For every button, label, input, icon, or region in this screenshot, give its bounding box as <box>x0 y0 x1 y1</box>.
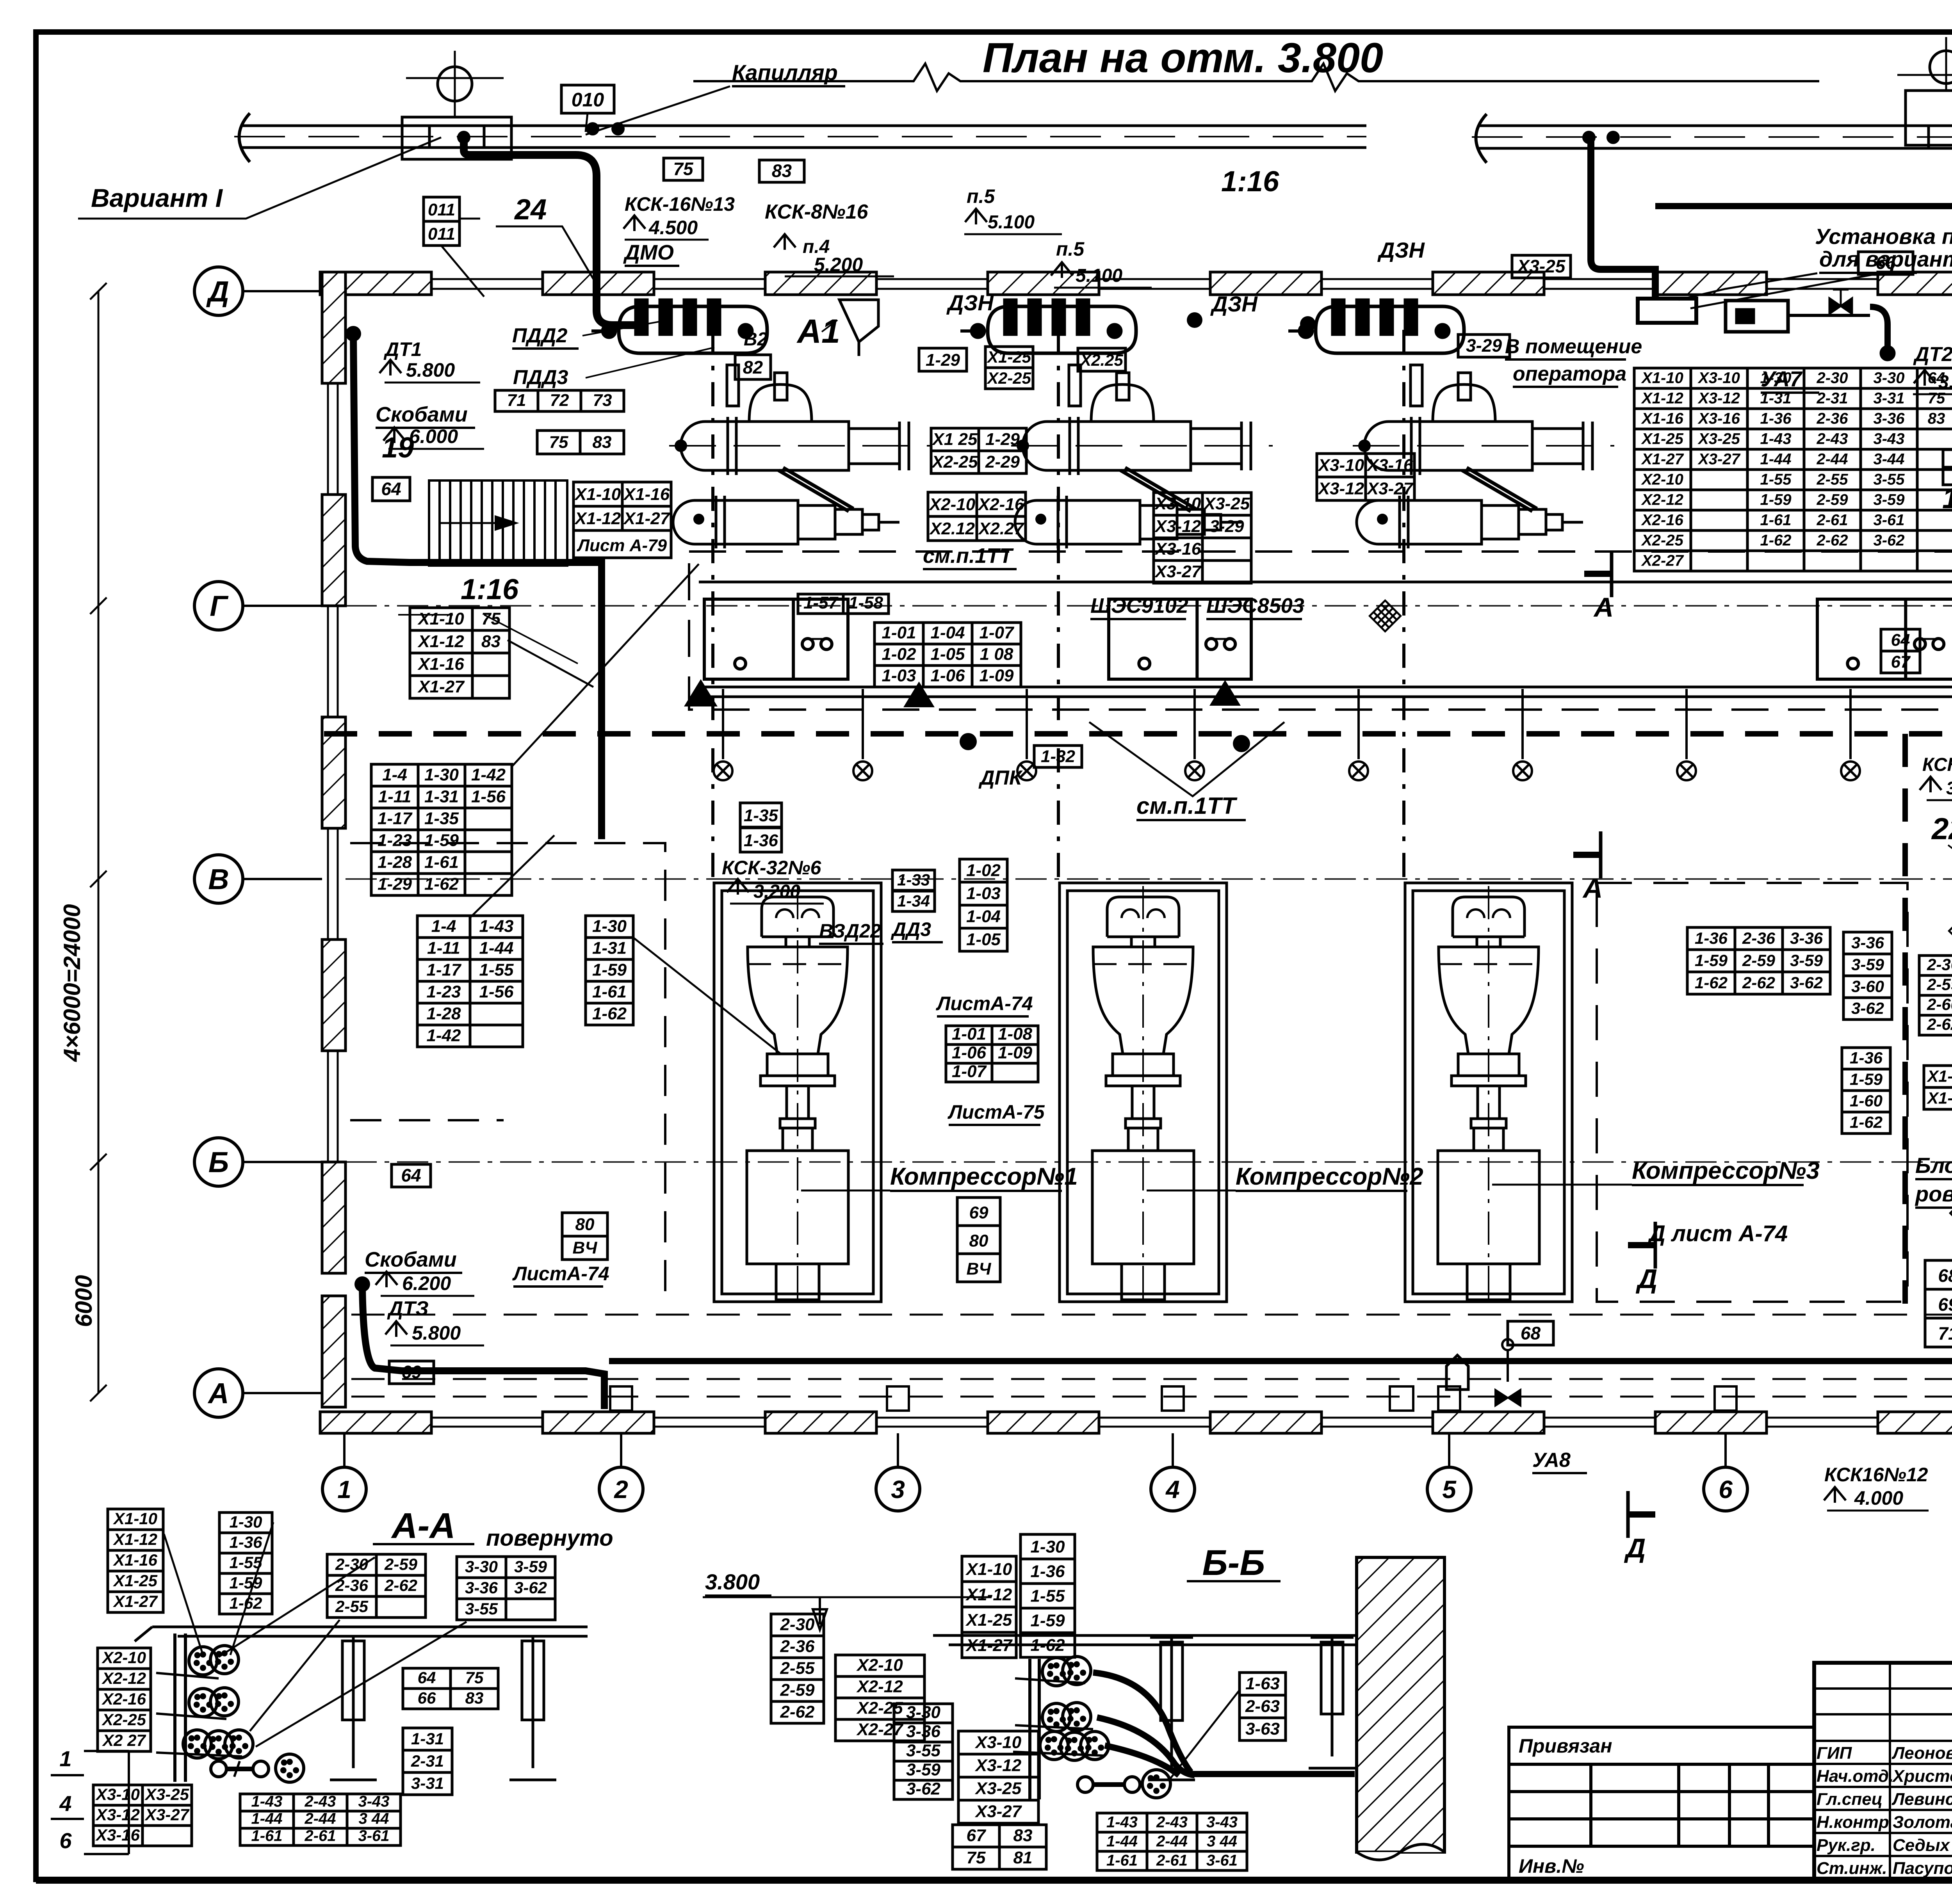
label КСК-16№13 <box>625 193 735 215</box>
dashed line below bays <box>351 1314 1952 1316</box>
svg-text:3-62: 3-62 <box>1790 973 1823 992</box>
svg-text:ДТЗ: ДТЗ <box>387 1297 429 1320</box>
flag 4.500 left <box>623 215 645 231</box>
svg-text:ШЭС9102: ШЭС9102 <box>1090 594 1188 617</box>
svg-text:повернуто: повернуто <box>486 1525 613 1551</box>
svg-text:Компрессор№2: Компрессор№2 <box>1236 1163 1423 1190</box>
svg-text:2-55: 2-55 <box>1816 471 1848 488</box>
svg-text:64: 64 <box>418 1668 436 1687</box>
label 22 mid <box>1931 811 1952 846</box>
svg-text:1-03: 1-03 <box>966 884 1001 903</box>
svg-text:3-59: 3-59 <box>1873 491 1905 508</box>
box 1-33 <box>892 870 935 890</box>
Б-Б pulley 5 <box>1040 1731 1068 1760</box>
Variant II pipe support bracket <box>1906 91 1952 148</box>
А-А section roof lines <box>135 1627 588 1641</box>
leader 22 mid <box>1948 845 1952 894</box>
table АА 1-30 col <box>219 1513 272 1614</box>
svg-text:3 44: 3 44 <box>1207 1833 1237 1850</box>
svg-text:4.500: 4.500 <box>648 217 698 238</box>
svg-text:Х3-12: Х3-12 <box>1154 517 1201 536</box>
svg-text:см.п.1ТТ: см.п.1ТТ <box>1136 793 1238 819</box>
table ББ 1-63 col <box>1240 1673 1286 1740</box>
row axis Г dash-dot line <box>346 605 1952 607</box>
svg-text:1:16: 1:16 <box>461 573 519 605</box>
svg-text:83: 83 <box>481 632 500 651</box>
svg-text:83: 83 <box>465 1689 484 1707</box>
label Компрессор №3 <box>1632 1157 1820 1185</box>
svg-text:рования ШИЕ: рования ШИЕ <box>1915 1182 1952 1206</box>
label 19 right <box>1942 482 1952 514</box>
svg-text:Х2 27: Х2 27 <box>102 1731 146 1749</box>
svg-text:ВЗД22: ВЗД22 <box>819 920 881 942</box>
svg-text:Х1-12: Х1-12 <box>965 1585 1012 1604</box>
svg-text:ДТ2: ДТ2 <box>1913 343 1952 366</box>
svg-text:Установка приборов: Установка приборов <box>1815 224 1952 249</box>
wire: cable bottom-left corner <box>362 1284 604 1409</box>
svg-text:2-59: 2-59 <box>1816 491 1848 508</box>
Б-Б roof lines <box>933 1635 1390 1645</box>
svg-text:3-44: 3-44 <box>1873 450 1904 468</box>
bottom wall window lines <box>431 1418 1952 1427</box>
svg-text:Седых: Седых <box>1893 1836 1950 1855</box>
svg-text:5.200: 5.200 <box>814 254 863 276</box>
svg-text:Х3-10: Х3-10 <box>1697 369 1740 386</box>
top wall pier 1 <box>320 272 431 295</box>
УА8 valve black <box>1495 1390 1521 1406</box>
crosshatch near Блок <box>1950 1197 1952 1229</box>
label Установка приборов <box>1815 224 1952 249</box>
section flag Д bottom <box>1624 1491 1655 1563</box>
svg-text:6: 6 <box>1719 1475 1733 1504</box>
wire: long bottom cable to ДТЧ <box>609 1358 1952 1364</box>
svg-text:Х3-12: Х3-12 <box>1317 479 1364 498</box>
svg-text:75: 75 <box>549 432 568 452</box>
svg-text:1-43: 1-43 <box>251 1793 282 1810</box>
svg-text:ГИП: ГИП <box>1817 1744 1852 1763</box>
svg-text:3-59: 3-59 <box>1851 955 1884 973</box>
flag 5.200 <box>774 234 796 250</box>
ul 3800 <box>1927 799 1952 801</box>
leader см.п.1ТТ V <box>1089 722 1284 796</box>
svg-text:1-61: 1-61 <box>1106 1852 1138 1869</box>
valve bowtie near УА7 <box>1829 290 1852 314</box>
svg-text:Х1-27: Х1-27 <box>623 509 671 528</box>
table 1-57 1-58 <box>798 594 889 614</box>
Б-Б pulley 8 <box>1142 1770 1170 1798</box>
elev 4.500 <box>648 217 698 238</box>
table АА 1-43 2-43 3-43 <box>240 1794 401 1845</box>
row axis А circle <box>194 1369 322 1417</box>
table ББ 2-30 col <box>771 1614 824 1723</box>
svg-text:Х1-12: Х1-12 <box>417 632 464 651</box>
svg-text:1-32: 1-32 <box>1041 747 1076 766</box>
svg-text:2-43: 2-43 <box>1156 1813 1188 1831</box>
table Х3-10 Х3-25 col <box>1154 493 1251 583</box>
instrument cluster 2 (valves/transmitters at top wall) <box>1288 299 1464 353</box>
svg-text:1-43: 1-43 <box>479 916 513 936</box>
title Б-Б <box>1187 1543 1281 1583</box>
leader 66 <box>1690 274 1874 308</box>
elev 3 800 <box>1946 778 1952 798</box>
electrical panel 1 in duct band <box>704 599 848 679</box>
svg-text:1-55: 1-55 <box>1030 1587 1065 1606</box>
row axis Б dash-dot line <box>346 1161 1952 1163</box>
svg-text:72: 72 <box>550 391 569 410</box>
Б-Б pulley 4 <box>1063 1703 1091 1731</box>
svg-text:Х3-25: Х3-25 <box>1203 494 1250 513</box>
svg-text:1-36: 1-36 <box>1760 410 1792 427</box>
label повернуто <box>486 1525 613 1551</box>
svg-text:1-63: 1-63 <box>1245 1674 1280 1693</box>
svg-text:Гл.спец: Гл.спец <box>1817 1790 1883 1809</box>
left wall window lines <box>328 383 338 1162</box>
svg-text:1-03: 1-03 <box>882 666 916 685</box>
svg-text:1-56: 1-56 <box>479 982 514 1001</box>
svg-text:ШЭС8503: ШЭС8503 <box>1206 594 1304 617</box>
elev 5.800 дт1 <box>406 359 455 381</box>
table ББ Х1-10 col <box>962 1556 1016 1658</box>
table 1-36 2-36 3-36 <box>1687 927 1830 994</box>
label ДМО <box>623 241 679 266</box>
svg-text:1-35: 1-35 <box>744 806 778 825</box>
left wall pier 5 <box>322 1162 346 1273</box>
label оператора <box>1513 363 1626 387</box>
А-А pulley 8 <box>276 1754 304 1782</box>
svg-text:1-30: 1-30 <box>229 1513 262 1531</box>
label ДД3 <box>891 918 943 942</box>
svg-text:В2: В2 <box>744 329 768 350</box>
leader Установка <box>1679 273 1817 300</box>
left wall pier 4 <box>322 940 346 1051</box>
svg-text:1-17: 1-17 <box>426 960 462 979</box>
heat exchanger unit 3 main vessel <box>1353 365 1614 475</box>
box 64 col7 <box>1881 629 1920 651</box>
cable dot bottom-left <box>354 1276 370 1292</box>
bottom wall pier 1 <box>320 1412 431 1433</box>
Б-Б pulley 2 <box>1063 1657 1091 1685</box>
crosshatch near В flag <box>1948 915 1952 947</box>
callout 010 <box>561 85 614 113</box>
svg-text:6.000: 6.000 <box>409 425 458 447</box>
svg-text:1:16: 1:16 <box>1221 165 1279 198</box>
table 75 83 <box>537 431 624 454</box>
svg-text:1-59: 1-59 <box>229 1573 262 1592</box>
svg-text:011: 011 <box>428 224 455 244</box>
svg-text:Х3-12: Х3-12 <box>1697 390 1740 407</box>
svg-text:010: 010 <box>572 89 604 111</box>
label Привязан <box>1519 1735 1612 1757</box>
svg-text:3-30: 3-30 <box>465 1557 498 1576</box>
label 19 left <box>382 431 414 464</box>
bottom frame thick line <box>36 1877 1952 1884</box>
heat exchanger unit 2 main vessel <box>1011 365 1273 475</box>
svg-text:83: 83 <box>593 432 612 452</box>
box Х2-25 he1 <box>985 368 1033 389</box>
svg-text:3-59: 3-59 <box>514 1557 547 1576</box>
machine axis 1 <box>711 330 714 886</box>
svg-text:1-11: 1-11 <box>427 938 460 957</box>
row axis Г circle <box>194 582 322 630</box>
small instruments between clusters <box>1187 312 1316 332</box>
svg-text:5.800: 5.800 <box>406 359 455 381</box>
top wall pier 4 <box>988 272 1099 295</box>
svg-text:Х1-27: Х1-27 <box>417 677 465 696</box>
table Х1 25 1-29 <box>931 428 1026 473</box>
left dimension line vertical <box>90 283 107 1401</box>
svg-text:3-36: 3-36 <box>465 1578 498 1597</box>
svg-text:2-43: 2-43 <box>304 1793 336 1810</box>
svg-text:011: 011 <box>428 200 455 219</box>
svg-text:Х2-16: Х2-16 <box>1641 511 1683 528</box>
svg-text:80: 80 <box>575 1215 595 1234</box>
flag 6.200 <box>376 1272 397 1287</box>
svg-text:Х3-27: Х3-27 <box>1366 479 1414 498</box>
svg-text:2-43: 2-43 <box>1816 430 1848 447</box>
table 1-01..1-09 <box>874 623 1021 687</box>
label ПДД3 <box>513 366 579 390</box>
А-А column 2 <box>509 1636 556 1780</box>
svg-text:Х1-25: Х1-25 <box>987 348 1031 366</box>
svg-text:ЛистА-74: ЛистА-74 <box>936 993 1033 1014</box>
svg-text:Пасупонько: Пасупонько <box>1893 1859 1952 1878</box>
label ВЗД22 <box>819 920 883 944</box>
svg-text:Х1-16: Х1-16 <box>623 485 670 504</box>
svg-text:83: 83 <box>1013 1826 1033 1845</box>
svg-text:Х2-25: Х2-25 <box>102 1710 146 1729</box>
svg-text:2-36: 2-36 <box>335 1576 369 1594</box>
dimension text 6000 <box>71 1275 97 1327</box>
top wall pier 8 <box>1878 272 1952 295</box>
svg-text:Х2.12: Х2.12 <box>929 519 975 538</box>
svg-text:1-04: 1-04 <box>930 623 965 642</box>
ul 3.200 <box>730 903 824 905</box>
svg-text:1-35: 1-35 <box>424 809 459 828</box>
svg-text:68: 68 <box>1938 1265 1952 1286</box>
Б-Б column 2 <box>1309 1637 1355 1768</box>
svg-text:1-09: 1-09 <box>998 1043 1033 1062</box>
table Х1-10 75 <box>410 608 509 698</box>
svg-text:Х1-10: Х1-10 <box>417 609 464 628</box>
svg-text:3-43: 3-43 <box>1873 430 1904 447</box>
svg-text:Привязан: Привязан <box>1519 1735 1612 1757</box>
instrument cluster 3 right (УА7 area) <box>1726 301 1952 361</box>
svg-text:24: 24 <box>514 193 547 226</box>
svg-text:3 44: 3 44 <box>359 1810 389 1827</box>
svg-text:3: 3 <box>891 1475 905 1504</box>
svg-text:66: 66 <box>418 1689 436 1707</box>
svg-text:1-61: 1-61 <box>1760 511 1791 528</box>
А-А pulley 3 <box>189 1689 217 1717</box>
svg-text:83: 83 <box>772 160 792 181</box>
cable dots Variant II <box>1582 131 1952 212</box>
svg-text:75: 75 <box>673 158 694 179</box>
svg-text:КСК16№12: КСК16№12 <box>1824 1464 1928 1486</box>
drawing title: План на отм.3.800 <box>983 34 1383 81</box>
svg-text:Х1-12: Х1-12 <box>1641 390 1683 407</box>
svg-text:3-36: 3-36 <box>1851 933 1884 952</box>
elev 5.200 <box>814 254 863 276</box>
svg-text:3-59: 3-59 <box>906 1760 941 1779</box>
svg-text:Х1-12: Х1-12 <box>574 509 621 528</box>
svg-text:1-59: 1-59 <box>1760 491 1792 508</box>
label Лист А-74 bottomleft <box>512 1263 609 1287</box>
flag 3 800 <box>1920 777 1941 792</box>
callout 66 variant II <box>1858 252 1913 274</box>
svg-text:1: 1 <box>59 1746 71 1771</box>
svg-text:Х3-16: Х3-16 <box>1154 539 1201 559</box>
svg-text:3-31: 3-31 <box>411 1774 444 1792</box>
top wall pier 6 <box>1433 272 1544 295</box>
svg-text:ДД3: ДД3 <box>891 918 931 940</box>
svg-text:ПДД2: ПДД2 <box>512 324 568 347</box>
svg-text:1-62: 1-62 <box>1695 973 1728 992</box>
svg-text:2-55: 2-55 <box>335 1597 369 1616</box>
svg-text:Скобами: Скобами <box>365 1248 457 1271</box>
svg-text:1-28: 1-28 <box>426 1004 461 1023</box>
svg-text:2-55: 2-55 <box>780 1658 815 1678</box>
box 65 mid <box>1943 448 1952 467</box>
svg-text:1-4: 1-4 <box>431 916 456 936</box>
dimension text 4x6000=24000 <box>59 904 85 1062</box>
svg-text:2-44: 2-44 <box>1816 450 1848 468</box>
svg-text:3-29: 3-29 <box>1466 335 1502 356</box>
Variant II anchor bulb <box>1897 37 1952 91</box>
svg-text:Х3-16: Х3-16 <box>1366 456 1413 475</box>
svg-text:Х3-27: Х3-27 <box>1154 562 1202 581</box>
column axis 5 circle <box>1427 1433 1471 1511</box>
svg-text:2-63: 2-63 <box>1245 1697 1280 1716</box>
svg-text:5.100: 5.100 <box>988 212 1035 233</box>
svg-text:1-44: 1-44 <box>1760 450 1791 468</box>
svg-text:3-63: 3-63 <box>1245 1719 1280 1739</box>
row axis Б circle <box>194 1138 322 1186</box>
callout fraction lines <box>51 1751 129 1854</box>
svg-text:1 08: 1 08 <box>980 645 1013 664</box>
svg-text:2-44: 2-44 <box>1156 1833 1188 1850</box>
svg-text:Х2.27: Х2.27 <box>978 519 1025 538</box>
table 1-30 single col <box>586 916 633 1025</box>
svg-text:А1: А1 <box>796 313 840 350</box>
svg-text:Х1-10: Х1-10 <box>965 1560 1012 1579</box>
svg-text:КСК-16№11: КСК-16№11 <box>1922 754 1952 775</box>
label ДЗН 3 <box>1377 238 1425 262</box>
svg-text:1-09: 1-09 <box>979 666 1014 685</box>
label Капилляр <box>732 60 845 86</box>
svg-text:1-61: 1-61 <box>251 1827 282 1845</box>
svg-text:1-06: 1-06 <box>952 1043 987 1062</box>
table Х1-10 Х1-16 (Лист А-79) <box>573 482 671 530</box>
left wall pier 2 <box>322 495 346 606</box>
svg-text:1-07: 1-07 <box>952 1062 987 1081</box>
svg-text:Г: Г <box>210 590 229 622</box>
svg-text:оператора: оператора <box>1513 363 1626 385</box>
label п.5 - 2 <box>1056 238 1085 260</box>
table АА 2-30 2-59 <box>327 1554 426 1618</box>
top wall pier 2 <box>543 272 654 295</box>
wire: fat dashed vertical right of bays <box>1902 734 1908 1304</box>
label 1:16 top <box>1221 165 1279 198</box>
bottom wall column supports <box>610 1386 1736 1411</box>
box 64 left <box>372 477 410 501</box>
svg-text:ДПК: ДПК <box>978 767 1023 789</box>
Б-Б cable rack post <box>1013 1659 1105 1799</box>
label Скобами left <box>376 403 475 428</box>
svg-text:1-61: 1-61 <box>424 852 459 872</box>
svg-text:1-36: 1-36 <box>229 1533 262 1551</box>
svg-text:Скобами: Скобами <box>376 403 468 426</box>
Variant I pipe support bracket <box>402 117 511 159</box>
svg-text:1-60: 1-60 <box>1850 1092 1883 1110</box>
compressor bay 3 enclosure <box>1405 883 1572 1302</box>
svg-text:Х1-25: Х1-25 <box>113 1571 158 1590</box>
svg-text:КСК-32№6: КСК-32№6 <box>722 857 821 879</box>
svg-text:68: 68 <box>1521 1323 1541 1343</box>
flag 5.100 - 2 <box>1051 262 1073 278</box>
svg-text:1-01: 1-01 <box>952 1025 986 1044</box>
flag 5.800 дт3 <box>385 1321 407 1337</box>
left wall pier 3 <box>322 717 346 828</box>
svg-text:Х2-25: Х2-25 <box>987 369 1031 387</box>
flag 3.200 <box>727 879 749 895</box>
svg-text:1-43: 1-43 <box>1760 430 1791 447</box>
svg-text:Х3-25: Х3-25 <box>1697 430 1740 447</box>
box 1-34 <box>892 891 935 911</box>
svg-text:Х3-25: Х3-25 <box>1516 256 1566 276</box>
heat exchanger unit 2 lower vessel <box>1015 468 1241 548</box>
svg-text:1-36: 1-36 <box>1030 1562 1065 1581</box>
svg-text:1-44: 1-44 <box>251 1810 282 1827</box>
svg-text:67: 67 <box>1891 653 1911 672</box>
table 2-36 col <box>1919 956 1952 1035</box>
cable dot top-left <box>346 326 361 342</box>
black dots near drops <box>960 733 1952 752</box>
svg-text:1-62: 1-62 <box>1760 532 1791 549</box>
box Х2.25 he2 <box>1078 348 1126 371</box>
label А1 <box>796 313 840 350</box>
svg-text:ПДД3: ПДД3 <box>513 366 568 389</box>
svg-text:1-59: 1-59 <box>1695 951 1728 970</box>
machine axis 2 <box>1057 330 1060 886</box>
title А-А <box>373 1506 474 1546</box>
svg-text:Б-Б: Б-Б <box>1202 1543 1265 1583</box>
svg-text:Ст.инж.: Ст.инж. <box>1817 1859 1887 1878</box>
callout 1/4/6 - 1 <box>59 1746 71 1771</box>
svg-text:Нач.отд.: Нач.отд. <box>1817 1767 1893 1786</box>
svg-text:2-59: 2-59 <box>1927 975 1952 994</box>
svg-text:Х2-27: Х2-27 <box>1641 552 1684 569</box>
svg-text:1-08: 1-08 <box>998 1025 1033 1044</box>
section flag A mid <box>1584 550 1614 623</box>
svg-text:1-29: 1-29 <box>985 430 1020 449</box>
label В помещение <box>1505 335 1642 359</box>
svg-text:1-31: 1-31 <box>592 938 627 957</box>
leader 011 <box>441 219 484 297</box>
svg-text:1-59: 1-59 <box>1030 1611 1065 1630</box>
svg-text:3-31: 3-31 <box>1873 390 1904 407</box>
svg-text:4: 4 <box>1165 1475 1180 1504</box>
svg-text:см.п.1ТТ: см.п.1ТТ <box>923 544 1014 568</box>
svg-text:Х1-27: Х1-27 <box>965 1636 1013 1655</box>
box 1-29 he1 <box>919 348 967 371</box>
svg-text:Х2-12: Х2-12 <box>856 1677 903 1696</box>
box 67 col7 <box>1881 651 1920 673</box>
А-А pulley 2 <box>210 1646 239 1674</box>
svg-text:В помещение: В помещение <box>1505 335 1642 358</box>
svg-text:1-62: 1-62 <box>592 1004 627 1023</box>
svg-text:22: 22 <box>1931 811 1952 846</box>
title block outer <box>1814 1663 1952 1879</box>
